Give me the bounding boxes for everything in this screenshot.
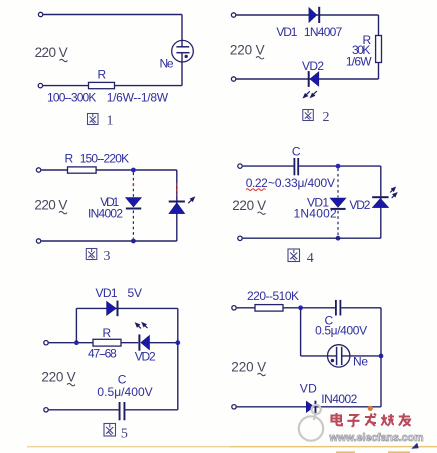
wire top left <box>237 307 335 309</box>
watermark char dian <box>332 413 343 425</box>
red dash mark <box>133 183 135 186</box>
tan bottom segments <box>336 451 410 453</box>
terminal T1-2 <box>231 13 235 17</box>
wire left vert up <box>75 308 77 342</box>
wire dashed lower <box>337 211 339 236</box>
ac tilde <box>258 212 266 214</box>
wire right vert <box>177 308 179 409</box>
neon electrode left <box>336 347 338 365</box>
node junction top <box>336 164 341 169</box>
diode VD (fig6) <box>306 401 316 414</box>
svg-text:1N4007: 1N4007 <box>304 25 343 39</box>
svg-text:5: 5 <box>121 427 128 442</box>
wire bottom left <box>49 409 119 411</box>
watermark char zi <box>347 415 359 426</box>
wire mid left <box>49 342 139 344</box>
svg-text:220 V: 220 V <box>34 197 67 212</box>
led arrows (fig2) <box>304 91 317 98</box>
svg-text:3: 3 <box>104 249 111 264</box>
wire right upper <box>181 15 183 47</box>
wire top right <box>341 307 381 309</box>
resistor R (fig3) <box>68 167 97 173</box>
wire top branch <box>76 307 177 309</box>
node junction left <box>298 305 303 310</box>
wire bottom <box>236 78 378 80</box>
svg-text:4: 4 <box>307 251 314 266</box>
neon dot <box>331 359 334 362</box>
svg-text:C: C <box>292 145 301 159</box>
svg-text:5V: 5V <box>128 286 143 300</box>
resistor R (fig1) <box>89 82 115 88</box>
wire right branch <box>380 166 382 238</box>
wire right vert <box>380 308 382 407</box>
svg-text:Ne: Ne <box>160 57 174 71</box>
node junction bottom <box>336 236 341 241</box>
elecfans gray logo <box>299 405 323 441</box>
svg-text:R: R <box>98 68 107 82</box>
svg-text:2: 2 <box>323 110 330 125</box>
node junction right <box>379 354 384 359</box>
watermark flame dot <box>368 406 373 411</box>
led arrows (fig4) <box>390 188 396 198</box>
svg-text:220 V: 220 V <box>35 45 68 60</box>
ac tilde <box>258 373 266 375</box>
svg-text:1/6W: 1/6W <box>346 55 372 69</box>
terminal T1-5 <box>44 341 48 345</box>
wire right branch <box>176 170 178 241</box>
wire bottom <box>41 240 177 242</box>
wire dashed upper <box>132 173 134 198</box>
terminal T2-3 <box>36 239 40 243</box>
terminal T2-6 <box>232 405 236 409</box>
resistor R (fig5) <box>93 339 121 346</box>
svg-text:1: 1 <box>107 114 114 129</box>
led VD2 (fig5) <box>138 334 149 350</box>
watermark char fa <box>365 414 376 427</box>
diode VD1 (fig2) <box>309 7 320 23</box>
svg-text:www.elecfans.com: www.elecfans.com <box>329 432 424 444</box>
led VD2 (fig2) <box>308 71 319 87</box>
svg-text:VD1: VD1 <box>96 286 118 300</box>
watermark char you <box>399 414 411 427</box>
svg-text:0.5μ/400V: 0.5μ/400V <box>315 323 367 337</box>
wire bottom <box>237 406 381 408</box>
svg-text:1N4002: 1N4002 <box>294 207 338 221</box>
ac tilde <box>256 57 264 59</box>
caption glyph tu5 <box>104 424 116 437</box>
capacitor C (fig4) <box>294 158 300 175</box>
svg-text:220--510K: 220--510K <box>247 289 299 303</box>
svg-text:220 V: 220 V <box>232 198 266 213</box>
neon electrode upper <box>176 46 189 48</box>
caption glyph tu1 <box>88 114 99 125</box>
caption glyph tu3 <box>86 249 97 260</box>
terminal T2-2 <box>231 77 235 81</box>
led arrow (fig3) <box>188 197 194 203</box>
svg-text:220 V: 220 V <box>231 359 266 374</box>
terminal T1-1 <box>38 12 42 16</box>
svg-text:IN4002: IN4002 <box>321 392 357 406</box>
svg-text:0.5μ/400V: 0.5μ/400V <box>97 385 152 399</box>
terminal T2-5 <box>44 408 48 412</box>
svg-text:220 V: 220 V <box>41 369 75 384</box>
node junction top <box>131 168 136 173</box>
wire top <box>236 14 378 16</box>
svg-text:R: R <box>65 151 74 165</box>
wire bottom <box>243 237 381 239</box>
capacitor C (fig5) <box>119 402 126 420</box>
wire to neon <box>301 355 336 357</box>
svg-text:VD1: VD1 <box>276 25 297 39</box>
wire right lower <box>181 53 183 86</box>
resistor (fig6) <box>255 305 283 312</box>
red squiggle underline <box>246 189 266 191</box>
resistor R (fig2) <box>376 36 382 63</box>
svg-text:VD2: VD2 <box>135 350 156 364</box>
diode VD1 (fig3) <box>126 198 142 210</box>
wire resistor to corner <box>378 63 380 80</box>
caption glyph tu4 <box>288 249 300 262</box>
svg-text:220 V: 220 V <box>230 43 265 58</box>
red dash overlay right branch <box>176 183 178 195</box>
wire right to resistor <box>378 15 380 36</box>
ac tilde <box>59 211 67 213</box>
svg-text:VD2: VD2 <box>349 198 370 212</box>
terminal T1-3 <box>36 168 40 172</box>
terminal T2-4 <box>238 236 242 240</box>
svg-text:100--300K: 100--300K <box>47 90 96 104</box>
caption glyph tu2 <box>303 110 314 121</box>
wire dashed upper <box>337 169 339 198</box>
diode VD1 (fig5) <box>107 301 119 317</box>
wire mid right <box>150 342 178 344</box>
wire dashed lower <box>132 211 134 239</box>
wire top <box>41 169 177 171</box>
capacitor C (fig6) <box>335 300 341 316</box>
ac tilde <box>67 383 75 385</box>
svg-text:1/6W--1/8W: 1/6W--1/8W <box>107 90 169 104</box>
led arrows (fig5) <box>136 323 148 329</box>
node junction left <box>74 340 79 345</box>
tan footer line <box>27 446 230 448</box>
svg-text:IN4002: IN4002 <box>88 206 123 220</box>
wire bottom right <box>125 409 178 411</box>
watermark char shao <box>381 414 394 426</box>
led (fig3) <box>169 201 185 214</box>
wire top <box>43 14 182 16</box>
svg-text:150--220K: 150--220K <box>80 151 129 165</box>
svg-text:VD: VD <box>300 382 317 396</box>
svg-text:47--68: 47--68 <box>88 346 117 360</box>
wire neon to junction <box>342 355 381 357</box>
neon lamp Ne envelope (fig6) <box>328 345 350 367</box>
neon electrode lower <box>176 52 189 54</box>
svg-text:R: R <box>103 326 112 340</box>
node junction bottom <box>131 239 136 244</box>
terminal T1-4 <box>238 164 242 168</box>
wire top right <box>299 165 381 167</box>
corner blue mark <box>411 443 418 449</box>
svg-text:Ne: Ne <box>353 355 368 369</box>
ac tilde <box>60 59 68 61</box>
svg-text:0.22: 0.22 <box>246 176 268 190</box>
svg-text:~0.33μ/400V: ~0.33μ/400V <box>268 176 335 190</box>
terminal T2-1 <box>38 83 42 87</box>
wire bottom <box>43 85 182 87</box>
svg-text:VD2: VD2 <box>302 59 324 73</box>
wire left vert <box>300 308 302 356</box>
neon dot <box>185 55 188 58</box>
terminal T1-6 <box>232 306 236 310</box>
led VD2 (fig4) <box>372 196 388 207</box>
neon electrode right <box>341 347 343 365</box>
neon lamp Ne envelope <box>172 40 194 62</box>
diode VD1 (fig4) <box>330 198 346 210</box>
node junction right <box>175 340 180 345</box>
wire top left <box>243 165 294 167</box>
